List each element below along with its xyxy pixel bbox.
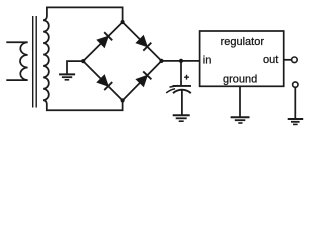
junction dot capacitor tap bbox=[179, 59, 183, 63]
transformer T1 primary top lead bbox=[6, 41, 27, 43]
transformer T1 primary winding bbox=[20, 42, 28, 80]
diode D3 (lower-left, L to B) bbox=[97, 75, 112, 90]
wire junction down to capacitor bbox=[180, 61, 182, 85]
bridge diamond wires bbox=[83, 22, 161, 101]
transformer T1 secondary winding bbox=[43, 20, 49, 100]
wire secondary bottom to bridge bottom bbox=[43, 100, 123, 110]
svg-text:regulator: regulator bbox=[221, 36, 265, 48]
output terminal circle bbox=[292, 57, 298, 63]
ground symbol (below capacitor) bbox=[173, 115, 190, 121]
regulator U1 box bbox=[200, 31, 284, 86]
wire ground terminal down bbox=[294, 87, 296, 118]
capacitor C1 plus sign bbox=[184, 75, 189, 80]
wire regulator ground pin down bbox=[239, 86, 241, 116]
svg-text:ground: ground bbox=[223, 74, 257, 86]
capacitor C1 curved plate bbox=[173, 90, 191, 94]
ground symbol (below regulator) bbox=[231, 117, 250, 123]
svg-text:in: in bbox=[203, 55, 212, 67]
ground symbol (bridge left) bbox=[59, 74, 75, 79]
svg-text:out: out bbox=[263, 54, 278, 66]
wire regulator out to terminal bbox=[284, 59, 292, 61]
diode D2 (upper-right, T to R) bbox=[136, 36, 151, 51]
capacitor C1 top plate bbox=[173, 85, 192, 87]
diode D1 (upper-left, L to T) bbox=[97, 32, 112, 47]
wire right corner to regulator in bbox=[162, 60, 200, 62]
junction dot right corner bbox=[159, 59, 163, 63]
junction dot left corner bbox=[81, 59, 85, 63]
capacitor C1 lower stem bbox=[181, 90, 183, 115]
transformer T1 core bbox=[33, 16, 37, 108]
stray mark artifact bbox=[166, 86, 178, 93]
wire left corner to ground bbox=[67, 61, 83, 74]
ground symbol (below ground terminal) bbox=[288, 119, 304, 124]
junction dot top corner bbox=[121, 20, 125, 24]
ground reference terminal circle bbox=[293, 82, 298, 87]
diode D4 (lower-right, B to R) bbox=[136, 71, 151, 86]
transformer T1 primary bottom lead bbox=[6, 79, 27, 81]
wire secondary top to bridge top bbox=[43, 7, 123, 22]
junction dot bottom corner bbox=[121, 98, 125, 102]
